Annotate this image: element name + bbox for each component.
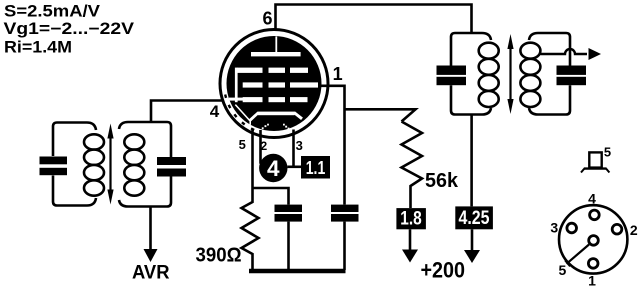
tube V1 envelope xyxy=(220,30,328,138)
svg-text:1: 1 xyxy=(333,64,343,84)
arrow supply right xyxy=(471,229,474,250)
arrow supply left xyxy=(409,229,412,250)
grid row 3 xyxy=(243,97,263,102)
svg-text:4: 4 xyxy=(588,191,596,207)
svg-text:5: 5 xyxy=(239,137,246,152)
grid row 1 xyxy=(237,68,263,73)
heater arc xyxy=(262,127,264,129)
anode lead xyxy=(275,37,277,54)
wire screen branch to 56k xyxy=(345,109,416,121)
svg-text:+200: +200 xyxy=(421,258,466,283)
coil L4 loops xyxy=(520,43,540,59)
tube V1 body disc xyxy=(227,36,322,131)
value box 1.8 xyxy=(396,208,426,229)
cathode filament xyxy=(258,112,295,116)
wire pin 1 to screen node xyxy=(321,86,345,205)
wire pin 5 down xyxy=(251,129,254,188)
wire C3 down xyxy=(287,222,290,270)
svg-text:S=2.5mA/V: S=2.5mA/V xyxy=(4,3,100,21)
svg-text:1.8: 1.8 xyxy=(400,209,422,230)
capacitor C2 (right of T1) xyxy=(157,157,186,165)
value box 1.1 xyxy=(301,156,330,179)
wire grid feed to pin 4 xyxy=(151,101,231,123)
tuning arrow T2 xyxy=(509,44,511,104)
tuning arrow T1 xyxy=(109,133,111,195)
coil L2 loops xyxy=(124,134,144,149)
socket pin 1 xyxy=(588,259,598,269)
svg-text:4: 4 xyxy=(210,102,220,121)
svg-text:1.1: 1.1 xyxy=(306,157,326,178)
svg-text:390Ω: 390Ω xyxy=(196,245,242,267)
socket key line xyxy=(567,245,590,264)
wire ground rail xyxy=(249,269,346,273)
svg-text:3: 3 xyxy=(296,138,303,153)
capacitor C6 xyxy=(557,66,587,75)
wire T2 primary bottom xyxy=(470,115,473,207)
socket pin 2 xyxy=(612,224,622,234)
svg-text:4: 4 xyxy=(267,156,280,181)
svg-text:5: 5 xyxy=(559,262,567,278)
transformer T2 left winding frame xyxy=(451,33,491,66)
capacitor C1 (left) xyxy=(40,157,68,165)
svg-text:2: 2 xyxy=(630,222,638,238)
grid rail xyxy=(235,68,238,103)
meter circle 4 xyxy=(259,154,287,182)
socket pin 4 xyxy=(590,210,600,220)
topcap symbol xyxy=(589,152,601,167)
socket pin 3 xyxy=(567,223,577,233)
wire top: pin6 to right transformer primary xyxy=(276,5,472,34)
wire C4 down xyxy=(343,222,346,270)
svg-text:1: 1 xyxy=(588,273,596,289)
svg-text:AVR: AVR xyxy=(132,263,170,284)
svg-text:6: 6 xyxy=(262,9,272,29)
value box 4.25 xyxy=(455,206,493,229)
transformer T1 left winding frame xyxy=(53,123,96,157)
socket base circle xyxy=(559,205,627,273)
ring artifact dashes xyxy=(225,95,258,132)
svg-text:56k: 56k xyxy=(425,170,459,192)
transformer T2 right winding frame xyxy=(529,33,570,66)
coil L3 loops xyxy=(479,43,499,59)
wire AVR drop xyxy=(149,207,152,251)
wire output with hop xyxy=(541,49,588,54)
svg-text:Vg1=−2...−22V: Vg1=−2...−22V xyxy=(4,20,135,38)
wire cathode junction xyxy=(253,188,289,205)
anode plate xyxy=(251,52,301,56)
wire pin 2 to filament meter xyxy=(261,130,267,163)
coil L1 loops xyxy=(84,134,104,149)
resistor R1 390ohm xyxy=(242,188,259,269)
capacitor C3 xyxy=(275,205,303,212)
grid row 2 xyxy=(243,82,263,87)
capacitor C5 xyxy=(437,66,467,75)
wire pin 3 down xyxy=(292,130,295,168)
resistor R2 56k xyxy=(402,122,423,209)
socket pin center xyxy=(589,236,599,246)
pin 4 inner lead xyxy=(229,98,243,101)
svg-text:4.25: 4.25 xyxy=(459,208,490,229)
wire meter to 1.1 box xyxy=(288,166,302,169)
svg-text:3: 3 xyxy=(550,219,558,235)
transformer T1 right winding frame xyxy=(119,122,171,157)
svg-text:5: 5 xyxy=(604,145,611,160)
capacitor C4 xyxy=(331,205,359,212)
svg-text:Ri=1.4M: Ri=1.4M xyxy=(4,39,72,57)
